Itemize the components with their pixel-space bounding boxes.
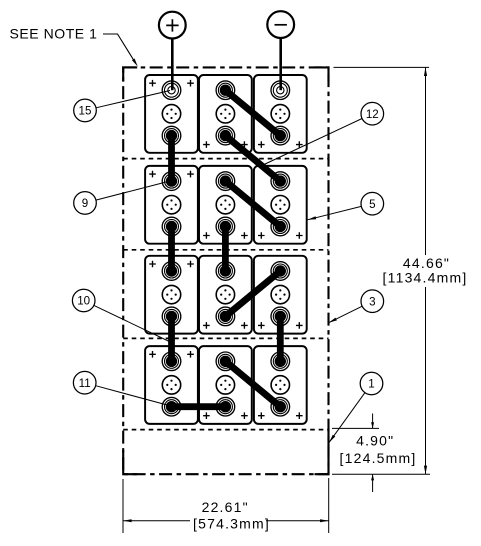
shelf separator line 2 — [123, 249, 328, 251]
dimension height 44.66in / 1134.4mm — [334, 67, 468, 474]
battery row2 col B — [199, 166, 252, 244]
negative terminal symbol — [267, 11, 294, 38]
shelf separator line 1 — [123, 158, 328, 160]
svg-text:[124.5mm]: [124.5mm] — [340, 450, 417, 466]
battery row1 col B — [199, 75, 252, 153]
svg-text:11: 11 — [79, 377, 91, 390]
svg-text:4.90": 4.90" — [356, 433, 394, 449]
svg-text:15: 15 — [79, 105, 92, 118]
svg-text:12: 12 — [366, 108, 379, 121]
battery row3 col A — [145, 256, 198, 334]
battery row4 col A — [145, 346, 198, 424]
callout 5 (arrow to battery C2) — [308, 192, 384, 219]
cable A2- to A3+ (vertical) — [166, 221, 177, 277]
cable C3- to C4+ (vertical) — [275, 311, 286, 367]
cable B2+ to C2- (diagonal) — [220, 175, 286, 232]
svg-text:22.61": 22.61" — [202, 499, 249, 515]
cable B1- to C2+ (long diagonal) — [220, 130, 286, 187]
svg-text:5: 5 — [369, 198, 375, 211]
svg-text:SEE NOTE 1: SEE NOTE 1 — [10, 26, 98, 42]
callout 10 (leader to cable A3-A4) — [72, 289, 173, 343]
cable A1- to A2+ (vertical) — [166, 130, 177, 187]
svg-text:3: 3 — [369, 295, 375, 308]
battery row3 col C — [254, 256, 307, 334]
callout 12 (leader to long diagonal cable) — [264, 102, 384, 164]
negative feed wire — [279, 38, 282, 90]
battery row1 col C — [254, 75, 307, 153]
svg-text:10: 10 — [77, 295, 90, 308]
cable A4- to B4- (horizontal) — [166, 401, 231, 412]
note leader arrow — [103, 34, 138, 67]
svg-text:9: 9 — [82, 197, 88, 210]
shelf separator line 3 — [123, 337, 328, 339]
callout 1 (arrow to cabinet outline bottom) — [329, 372, 383, 442]
dimension tray height 4.90in / 124.5mm — [332, 414, 430, 493]
battery row4 col B — [199, 346, 252, 424]
svg-text:1: 1 — [368, 378, 374, 391]
shelf separator line 4 — [123, 429, 328, 431]
positive feed wire — [171, 39, 174, 91]
callout 3 (arrow to cabinet outline) — [329, 290, 384, 323]
cable A3- to A4+ (vertical) — [166, 311, 177, 367]
battery row2 col A — [145, 166, 198, 244]
callout 9 (leader to battery A2 positive terminal) — [74, 181, 170, 214]
callout 15 (leader to battery A1 positive terminal) — [74, 91, 170, 122]
dimension width 22.61in / 574.3mm — [123, 478, 329, 533]
cable B2- to B3+ (vertical) — [220, 221, 231, 277]
cable C3+ to B3- (diagonal) — [220, 265, 286, 322]
cable B1+ to C1- (diagonal) — [220, 85, 286, 142]
battery row1 col A — [145, 75, 198, 153]
note label SEE NOTE 1 — [10, 26, 98, 42]
svg-text:[574.3mm]: [574.3mm] — [193, 516, 270, 532]
svg-text:[1134.4mm]: [1134.4mm] — [383, 270, 468, 286]
battery row4 col C — [254, 346, 307, 424]
cable B4+ to C4- (diagonal) — [220, 356, 286, 413]
battery row2 col C — [254, 166, 307, 244]
callout 11 (leader to battery A4 negative terminal) — [73, 371, 169, 405]
battery row3 col B — [199, 256, 252, 334]
enclosure outline (battery cabinet, dash-dot) — [123, 67, 328, 474]
positive terminal symbol — [159, 12, 186, 39]
